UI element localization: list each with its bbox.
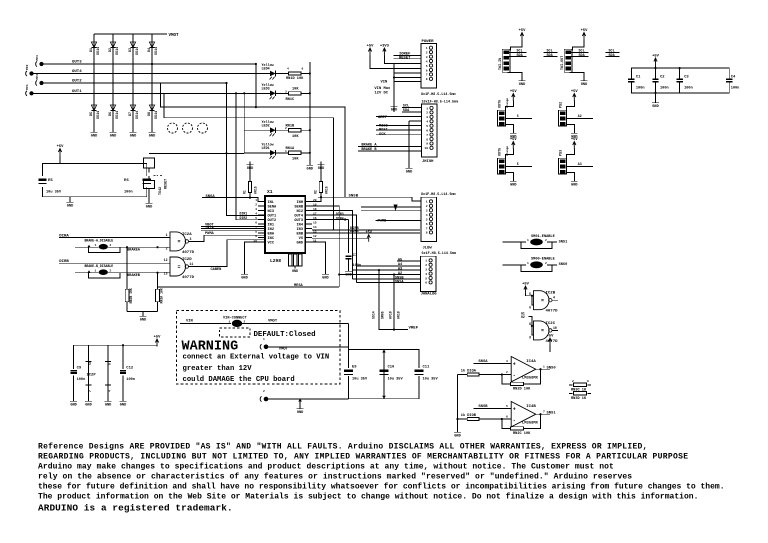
svg-text:Reference Designs ARE PROVIDED: Reference Designs ARE PROVIDED "AS IS" A… [38, 442, 648, 451]
capacitor C9 100n [73, 365, 75, 398]
svg-text:1: 1 [95, 270, 97, 273]
svg-text:C11: C11 [423, 366, 431, 370]
ground bottom rail [299, 399, 301, 406]
svg-text:CABEN: CABEN [211, 268, 222, 272]
svg-text:BRAKE A: BRAKE A [361, 144, 377, 148]
wire SNS1 output [536, 413, 550, 415]
svg-text:7: 7 [543, 410, 545, 413]
svg-text:15: 15 [313, 221, 317, 224]
svg-text:SENB: SENB [294, 205, 303, 209]
wire IOREF [394, 54, 421, 56]
svg-text:MOSI: MOSI [379, 129, 388, 133]
wire OUT6 signal [506, 118, 532, 120]
svg-text:1: 1 [527, 262, 529, 265]
svg-text:GND: GND [406, 171, 413, 175]
svg-text:VMOT: VMOT [268, 320, 278, 324]
svg-text:C10: C10 [388, 366, 396, 370]
pad MP1 [39, 62, 43, 66]
connector POWER 8x1F [421, 44, 437, 89]
svg-text:INC: INC [268, 237, 275, 241]
svg-text:A3: A3 [398, 268, 402, 272]
svg-text:2: 2 [426, 205, 428, 208]
svg-text:1: 1 [166, 233, 168, 237]
ground X1 left [244, 271, 246, 274]
svg-text:2: 2 [506, 371, 508, 374]
svg-text:C9: C9 [77, 367, 82, 371]
wire diode column 1 [93, 34, 95, 129]
wire VIN to jumper [180, 322, 231, 324]
svg-text:VIN: VIN [381, 81, 389, 85]
connector JLOW 8x1F [421, 197, 437, 241]
svg-text:BRAKEA: BRAKEA [127, 248, 141, 252]
wire brakeA loop [88, 247, 120, 252]
capacitor C3 100n [675, 79, 685, 81]
wire P$3 signal [567, 166, 593, 168]
svg-text:6: 6 [517, 114, 519, 118]
svg-text:DIR4: DIR4 [350, 230, 359, 234]
resistor 1k DIOB [458, 418, 468, 420]
svg-text:Arduino may make changes to sp: Arduino may make changes to specificatio… [38, 462, 614, 471]
svg-text:OUT3: OUT3 [72, 61, 82, 65]
X1 pin 14 [305, 228, 312, 230]
svg-text:rely on the absence or charact: rely on the absence or characteristics o… [38, 472, 632, 481]
svg-text:RN2A 10K: RN2A 10K [160, 288, 164, 303]
svg-text:0R18: 0R18 [397, 311, 401, 319]
svg-text:4: 4 [426, 121, 428, 124]
svg-text:4: 4 [287, 68, 289, 71]
svg-text:10K: 10K [292, 158, 299, 162]
grounds bottom cluster [73, 398, 75, 401]
svg-text:RN3D 1K: RN3D 1K [571, 397, 587, 401]
svg-text:OUT4: OUT4 [72, 70, 82, 74]
svg-text:GND: GND [140, 319, 147, 323]
svg-text:RN1D 10K: RN1D 10K [286, 77, 304, 81]
svg-text:OUT4: OUT4 [294, 214, 303, 218]
wire OUT1 [34, 92, 245, 94]
wire OUT2 [44, 82, 227, 84]
svg-text:VMOT: VMOT [169, 34, 180, 38]
resistor RN1B 10K [289, 129, 302, 132]
svg-text:6: 6 [425, 282, 427, 285]
wire SNSA input [474, 362, 512, 364]
ground TWI-IN [508, 72, 523, 77]
ground op-amps [457, 429, 459, 432]
svg-text:2: 2 [285, 127, 287, 130]
capacitor E9 10u 35V [344, 368, 353, 376]
svg-text:VIN Max: VIN Max [374, 87, 391, 91]
wire bottom cluster rail [74, 344, 157, 346]
svg-text:12V DC: 12V DC [374, 92, 388, 96]
svg-text:C7: C7 [353, 254, 358, 258]
svg-text:6x1F-H8.5-L14.5mm: 6x1F-H8.5-L14.5mm [422, 252, 457, 256]
svg-text:7: 7 [426, 227, 428, 230]
svg-text:SCL: SCL [517, 49, 523, 53]
wire signal line B [164, 93, 333, 230]
svg-text:10u 35V: 10u 35V [352, 378, 368, 382]
wire GND rail bottom [268, 398, 349, 400]
svg-text:greater than 12V: greater than 12V [183, 365, 253, 373]
wire X1 bottom right to ground [312, 242, 325, 271]
svg-text:2: 2 [255, 203, 257, 206]
wire VIN pin [393, 64, 395, 112]
wire diode column 4 [151, 34, 153, 129]
svg-text:3: 3 [285, 90, 287, 93]
svg-text:4: 4 [426, 60, 428, 63]
wire MESA [158, 286, 340, 288]
warning box outline [177, 311, 340, 385]
svg-text:100n: 100n [126, 378, 135, 382]
svg-text:6: 6 [426, 223, 428, 226]
ground C7 [348, 268, 350, 271]
svg-text:SNS0: SNS0 [559, 263, 568, 267]
wire SNSA to pin1 [202, 198, 265, 202]
svg-text:E6: E6 [124, 179, 129, 183]
svg-text:JLOW: JLOW [423, 247, 433, 251]
svg-text:ENB: ENB [297, 232, 304, 236]
svg-text:VS: VS [299, 237, 304, 241]
wire SNSB input [474, 407, 512, 409]
svg-text:=: = [541, 328, 544, 334]
svg-text:D1: D1 [90, 48, 94, 52]
svg-text:connect an External voltage to: connect an External voltage to VIN [183, 353, 330, 361]
wire RESET to POWER [394, 58, 421, 60]
svg-text:2: 2 [110, 270, 112, 273]
svg-text:100n: 100n [660, 87, 669, 91]
svg-text:LM358MX: LM358MX [522, 377, 539, 381]
svg-text:GND: GND [519, 83, 526, 87]
svg-text:RN1A: RN1A [286, 147, 295, 151]
svg-text:1: 1 [543, 365, 545, 368]
wire SNS0 output [536, 368, 550, 370]
svg-text:4: 4 [109, 390, 112, 392]
svg-text:1: 1 [426, 47, 428, 50]
svg-text:GND: GND [130, 135, 137, 139]
svg-text:C2: C2 [660, 76, 665, 80]
X1 pin 20 [305, 201, 312, 203]
wire RESET net [149, 152, 244, 154]
svg-text:C4: C4 [731, 76, 736, 80]
diode D1 [91, 42, 96, 48]
svg-text:IC4B: IC4B [526, 405, 536, 409]
diode brake A [75, 246, 99, 248]
svg-text:IN1: IN1 [268, 223, 274, 227]
wire +3V3 to POWER [384, 56, 421, 64]
svg-text:100n: 100n [731, 87, 740, 91]
wire P$2 signal [567, 118, 593, 120]
wire DIR4 [312, 232, 420, 234]
svg-text:1: 1 [229, 320, 231, 323]
svg-text:these for future definition an: these for future definition and shall ha… [38, 483, 725, 492]
svg-text:3: 3 [426, 56, 428, 59]
svg-text:BRAKE-A_DISABLE: BRAKE-A_DISABLE [85, 239, 114, 243]
IC4P power pins [107, 365, 109, 398]
ground OUT6 [506, 125, 514, 131]
svg-text:5: 5 [511, 380, 513, 383]
svg-text:REGARDING PRODUCTS, INCLUDING: REGARDING PRODUCTS, INCLUDING BUT NOT LI… [38, 452, 688, 461]
svg-text:1: 1 [426, 107, 428, 110]
svg-text:3: 3 [426, 210, 428, 213]
svg-text:VMOT: VMOT [279, 347, 289, 351]
svg-text:SNSB: SNSB [478, 405, 488, 409]
svg-text:4077D: 4077D [182, 251, 195, 255]
svg-text:4: 4 [255, 212, 257, 215]
wire OUT1 drop to X1 [227, 83, 266, 216]
wire +5V to cap box [59, 156, 61, 163]
X1 pin 1 [258, 201, 265, 203]
X1 pin 16 [305, 219, 312, 221]
svg-text:RN1C: RN1C [286, 98, 295, 102]
svg-text:100n: 100n [684, 87, 693, 91]
wire brakeA to gate pin2 [120, 246, 170, 248]
X1 pin 7 [258, 228, 265, 230]
svg-text:A2: A2 [578, 114, 582, 118]
ground under D6 [112, 129, 114, 132]
svg-text:SM05: SM05 [381, 311, 385, 319]
wire JHIGH gnd pin [409, 120, 422, 122]
wire reset to ground [148, 189, 150, 201]
X1 pin 15 [305, 223, 312, 225]
svg-text:GND: GND [297, 241, 304, 245]
X1 pin 12 [305, 237, 312, 239]
svg-text:TS42: TS42 [159, 187, 163, 195]
svg-text:GND: GND [67, 205, 74, 209]
svg-text:2: 2 [545, 239, 547, 242]
resistor 1k DIOA [458, 374, 468, 376]
X1 pin 4 [258, 214, 265, 216]
svg-text:OUT2: OUT2 [72, 80, 82, 84]
svg-text:RN2C 10K: RN2C 10K [513, 432, 531, 436]
X1 pin 17 [305, 214, 312, 216]
feedback resistor RN2D 10K [501, 373, 503, 375]
svg-text:SNSA: SNSA [478, 360, 488, 364]
svg-text:MP2: MP2 [26, 64, 29, 70]
wire op-amp input ground rail [457, 375, 459, 430]
resistor RN3D 1K [569, 392, 573, 394]
svg-text:LED4: LED4 [262, 68, 270, 72]
svg-text:4: 4 [426, 214, 428, 217]
svg-text:12: 12 [313, 235, 317, 238]
svg-text:9: 9 [529, 336, 531, 340]
svg-text:RN2B 10K: RN2B 10K [129, 288, 133, 303]
ground POWER VIN [393, 103, 395, 106]
svg-text:GND: GND [454, 435, 461, 439]
ground reset button [148, 200, 150, 203]
svg-text:MP3: MP3 [36, 74, 39, 80]
svg-text:10u 35V: 10u 35V [423, 378, 439, 382]
ground cap bank [655, 93, 657, 100]
wire JLOW pin wires [361, 206, 421, 208]
svg-text:DIRA: DIRA [59, 235, 69, 239]
svg-text:AV18: AV18 [389, 311, 393, 319]
svg-text:GND: GND [581, 83, 588, 87]
svg-text:GND: GND [571, 184, 578, 188]
wire DIRA to IC2A [59, 237, 170, 239]
svg-text:SCL: SCL [609, 49, 615, 53]
svg-text:BRAKEB: BRAKEB [127, 274, 141, 278]
svg-text:12: 12 [164, 258, 168, 262]
op gate IC2B 4077D [526, 294, 532, 296]
diode D4 [149, 42, 154, 48]
wire DIRB to IC2D [59, 262, 170, 264]
svg-text:ENA: ENA [268, 232, 275, 236]
mounting hole H1 [168, 123, 178, 133]
svg-text:8: 8 [109, 363, 112, 365]
mounting hole H3 [198, 123, 208, 133]
wire pin10 from gate IC2D [190, 240, 266, 267]
svg-text:7: 7 [426, 74, 428, 77]
svg-text:SS14: SS14 [155, 47, 159, 55]
wire brakeB to gate pin13 [120, 272, 170, 274]
wire diode column 2 [112, 34, 114, 129]
op-amp IC4A LM358MX [511, 357, 536, 382]
ground LED block [309, 162, 311, 165]
X1 bottom pads [289, 254, 292, 266]
X1 pin 10 [258, 241, 265, 243]
wire C3 stem [679, 68, 681, 93]
svg-text:DIR2: DIR2 [240, 216, 248, 220]
X1 pin 18 [305, 210, 312, 212]
capacitor E5 [38, 179, 46, 182]
mounting hole H2 [183, 123, 193, 133]
wire VREF [379, 270, 408, 330]
svg-text:MP1: MP1 [36, 55, 39, 61]
ground under D8 [151, 129, 153, 132]
wire LED1 row [244, 152, 270, 154]
resistor RN2B 10K pulldown [126, 247, 128, 289]
connector JANALOG 6x1F [421, 256, 437, 291]
svg-text:SS14: SS14 [136, 47, 140, 55]
svg-text:3: 3 [426, 116, 428, 119]
svg-text:ARDUINO is a registered tradem: ARDUINO is a registered trademark. [38, 503, 233, 514]
svg-text:SS14: SS14 [372, 311, 376, 319]
capacitor C2 100n [651, 79, 661, 81]
svg-text:D2: D2 [109, 48, 113, 52]
IC2P power pins [88, 365, 90, 398]
svg-text:MP4: MP4 [26, 84, 29, 90]
wire OUT4 [34, 73, 245, 75]
svg-text:VREF: VREF [409, 327, 419, 331]
svg-text:DIR4: DIR4 [336, 216, 344, 220]
svg-text:D3: D3 [129, 48, 133, 52]
svg-text:VIN: VIN [186, 320, 194, 324]
svg-text:IN3: IN3 [297, 228, 303, 232]
connector JHIGH 10x1F [422, 104, 438, 157]
svg-text:OUT2: OUT2 [268, 219, 277, 223]
X1 pin 5 [258, 219, 265, 221]
junction [151, 63, 153, 65]
svg-text:LED3: LED3 [262, 88, 270, 92]
wire OUT3 feed vertical [255, 64, 257, 107]
svg-text:A5: A5 [398, 258, 402, 262]
svg-text:JANALOG: JANALOG [421, 292, 438, 296]
wire pin2 [311, 205, 313, 207]
capacitor C7 100n [345, 219, 348, 221]
wire LED4 row [244, 73, 270, 75]
wire SCL TWI-OUT [571, 51, 589, 53]
svg-text:SDA: SDA [403, 109, 410, 113]
svg-text:RN2D 10K: RN2D 10K [513, 387, 531, 391]
svg-text:5: 5 [506, 405, 508, 408]
svg-text:IC4A: IC4A [526, 360, 536, 364]
svg-text:10K: 10K [292, 135, 299, 139]
svg-text:4: 4 [425, 273, 427, 276]
diode D2 [110, 42, 115, 48]
svg-text:+: + [513, 362, 516, 368]
ground pulldowns [127, 310, 158, 312]
X1 pin 3 [258, 210, 265, 212]
svg-text:LED2: LED2 [262, 124, 270, 128]
wire brakeB loop [88, 273, 120, 278]
svg-text:1: 1 [255, 199, 257, 202]
svg-text:OUT1: OUT1 [268, 214, 277, 218]
wire pin8 [201, 230, 265, 232]
svg-text:100n: 100n [636, 87, 645, 91]
svg-text:10: 10 [424, 147, 428, 150]
wire OUT3 [44, 63, 256, 65]
svg-text:10u 35V: 10u 35V [46, 191, 62, 195]
wire DIRB [312, 229, 420, 231]
svg-text:5: 5 [255, 217, 257, 220]
svg-text:6: 6 [529, 305, 531, 309]
svg-text:SM01-ENABLE: SM01-ENABLE [531, 235, 556, 239]
svg-text:IC2P: IC2P [87, 373, 97, 377]
ground X1 right [324, 271, 326, 274]
svg-text:OUT1: OUT1 [72, 90, 82, 94]
svg-text:10u 35V: 10u 35V [388, 378, 404, 382]
svg-text:4077D: 4077D [546, 340, 559, 344]
svg-text:NC3: NC3 [268, 210, 274, 214]
default closed box [220, 328, 251, 337]
wire OUT2 drop to X1 [236, 93, 265, 219]
wire VMOT from jumper [242, 322, 349, 324]
svg-text:1: 1 [263, 338, 265, 341]
wire cap bank box [631, 68, 729, 93]
wire pin7 [201, 228, 265, 230]
resistor RN1A 10K [289, 151, 302, 154]
pad MP3 [39, 81, 43, 85]
pad X2-2 GND [264, 397, 268, 401]
svg-text:GND: GND [322, 277, 329, 281]
feedback resistor RN2C 10K [501, 418, 503, 420]
svg-text:C12: C12 [126, 367, 134, 371]
svg-text:BRAKE B: BRAKE B [361, 148, 377, 152]
svg-text:2: 2 [545, 262, 547, 265]
svg-text:1: 1 [426, 201, 428, 204]
svg-text:D5: D5 [90, 112, 94, 116]
pad X2-1 VMOT [264, 345, 268, 349]
svg-text:SNS1: SNS1 [547, 411, 557, 415]
capacitor C12 100n [122, 365, 124, 398]
svg-text:R1: R1 [243, 190, 247, 194]
svg-text:6: 6 [587, 380, 589, 383]
wire OUT5 signal [506, 166, 532, 168]
X1 pin 9 [258, 237, 265, 239]
svg-text:D7: D7 [129, 112, 133, 116]
svg-text:8: 8 [426, 232, 428, 235]
wire SDA TWI-OUT [571, 55, 589, 57]
svg-text:D6: D6 [109, 112, 113, 116]
svg-text:=: = [541, 298, 544, 304]
svg-text:GND: GND [241, 277, 248, 281]
svg-text:8: 8 [426, 138, 428, 141]
svg-text:+: + [513, 407, 516, 413]
svg-text:P$3: P$3 [558, 150, 563, 156]
wire diode column 3 [132, 34, 134, 129]
pad MP2 [29, 71, 33, 75]
svg-text:PWMB: PWMB [378, 219, 387, 223]
svg-text:2: 2 [572, 380, 574, 383]
diode brake B [75, 272, 99, 274]
